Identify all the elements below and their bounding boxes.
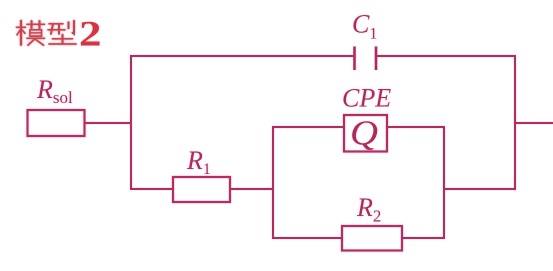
resistor R2 box: [342, 226, 402, 251]
svg-text:R1: R1: [186, 146, 211, 178]
wire: inner bottom branch right segment from R2: [402, 237, 445, 239]
wire: inner loop right rail: [443, 127, 445, 239]
svg-text:2: 2: [79, 13, 102, 53]
CPE element Q box: [344, 115, 387, 152]
svg-text:CPE: CPE: [342, 84, 391, 113]
resistor R_sol box: [28, 110, 85, 136]
svg-text:Q: Q: [350, 114, 378, 153]
wire: connector from inner loop to right rail: [444, 188, 515, 190]
wire: bottom branch from left rail to R1: [130, 188, 173, 190]
wire: top wire right segment from C1: [376, 55, 516, 57]
title "模型2" : char 型 drawn as strokes: [48, 21, 76, 44]
wire: inner bottom branch left segment to R2: [272, 237, 342, 239]
wire: R1 to inner loop: [230, 188, 274, 190]
wire: inner top branch right segment from Q: [387, 126, 445, 128]
capacitor C1 plates: [355, 47, 377, 71]
wire: top wire left segment to C1: [130, 55, 355, 57]
wire: left rail vertical: [130, 56, 132, 190]
wire: output terminal: [515, 122, 553, 124]
resistor R1 box: [173, 177, 230, 202]
svg-text:R2: R2: [356, 193, 381, 226]
wire: right rail vertical: [514, 56, 516, 190]
svg-text:Rsol: Rsol: [36, 75, 73, 107]
wire: inner top branch left segment to Q: [272, 126, 344, 128]
title "模型2" : char 模 drawn as strokes: [17, 21, 45, 45]
svg-text:C1: C1: [352, 10, 377, 43]
wire: R_sol output to left rail: [85, 122, 132, 124]
wire: inner loop left rail: [272, 127, 274, 239]
